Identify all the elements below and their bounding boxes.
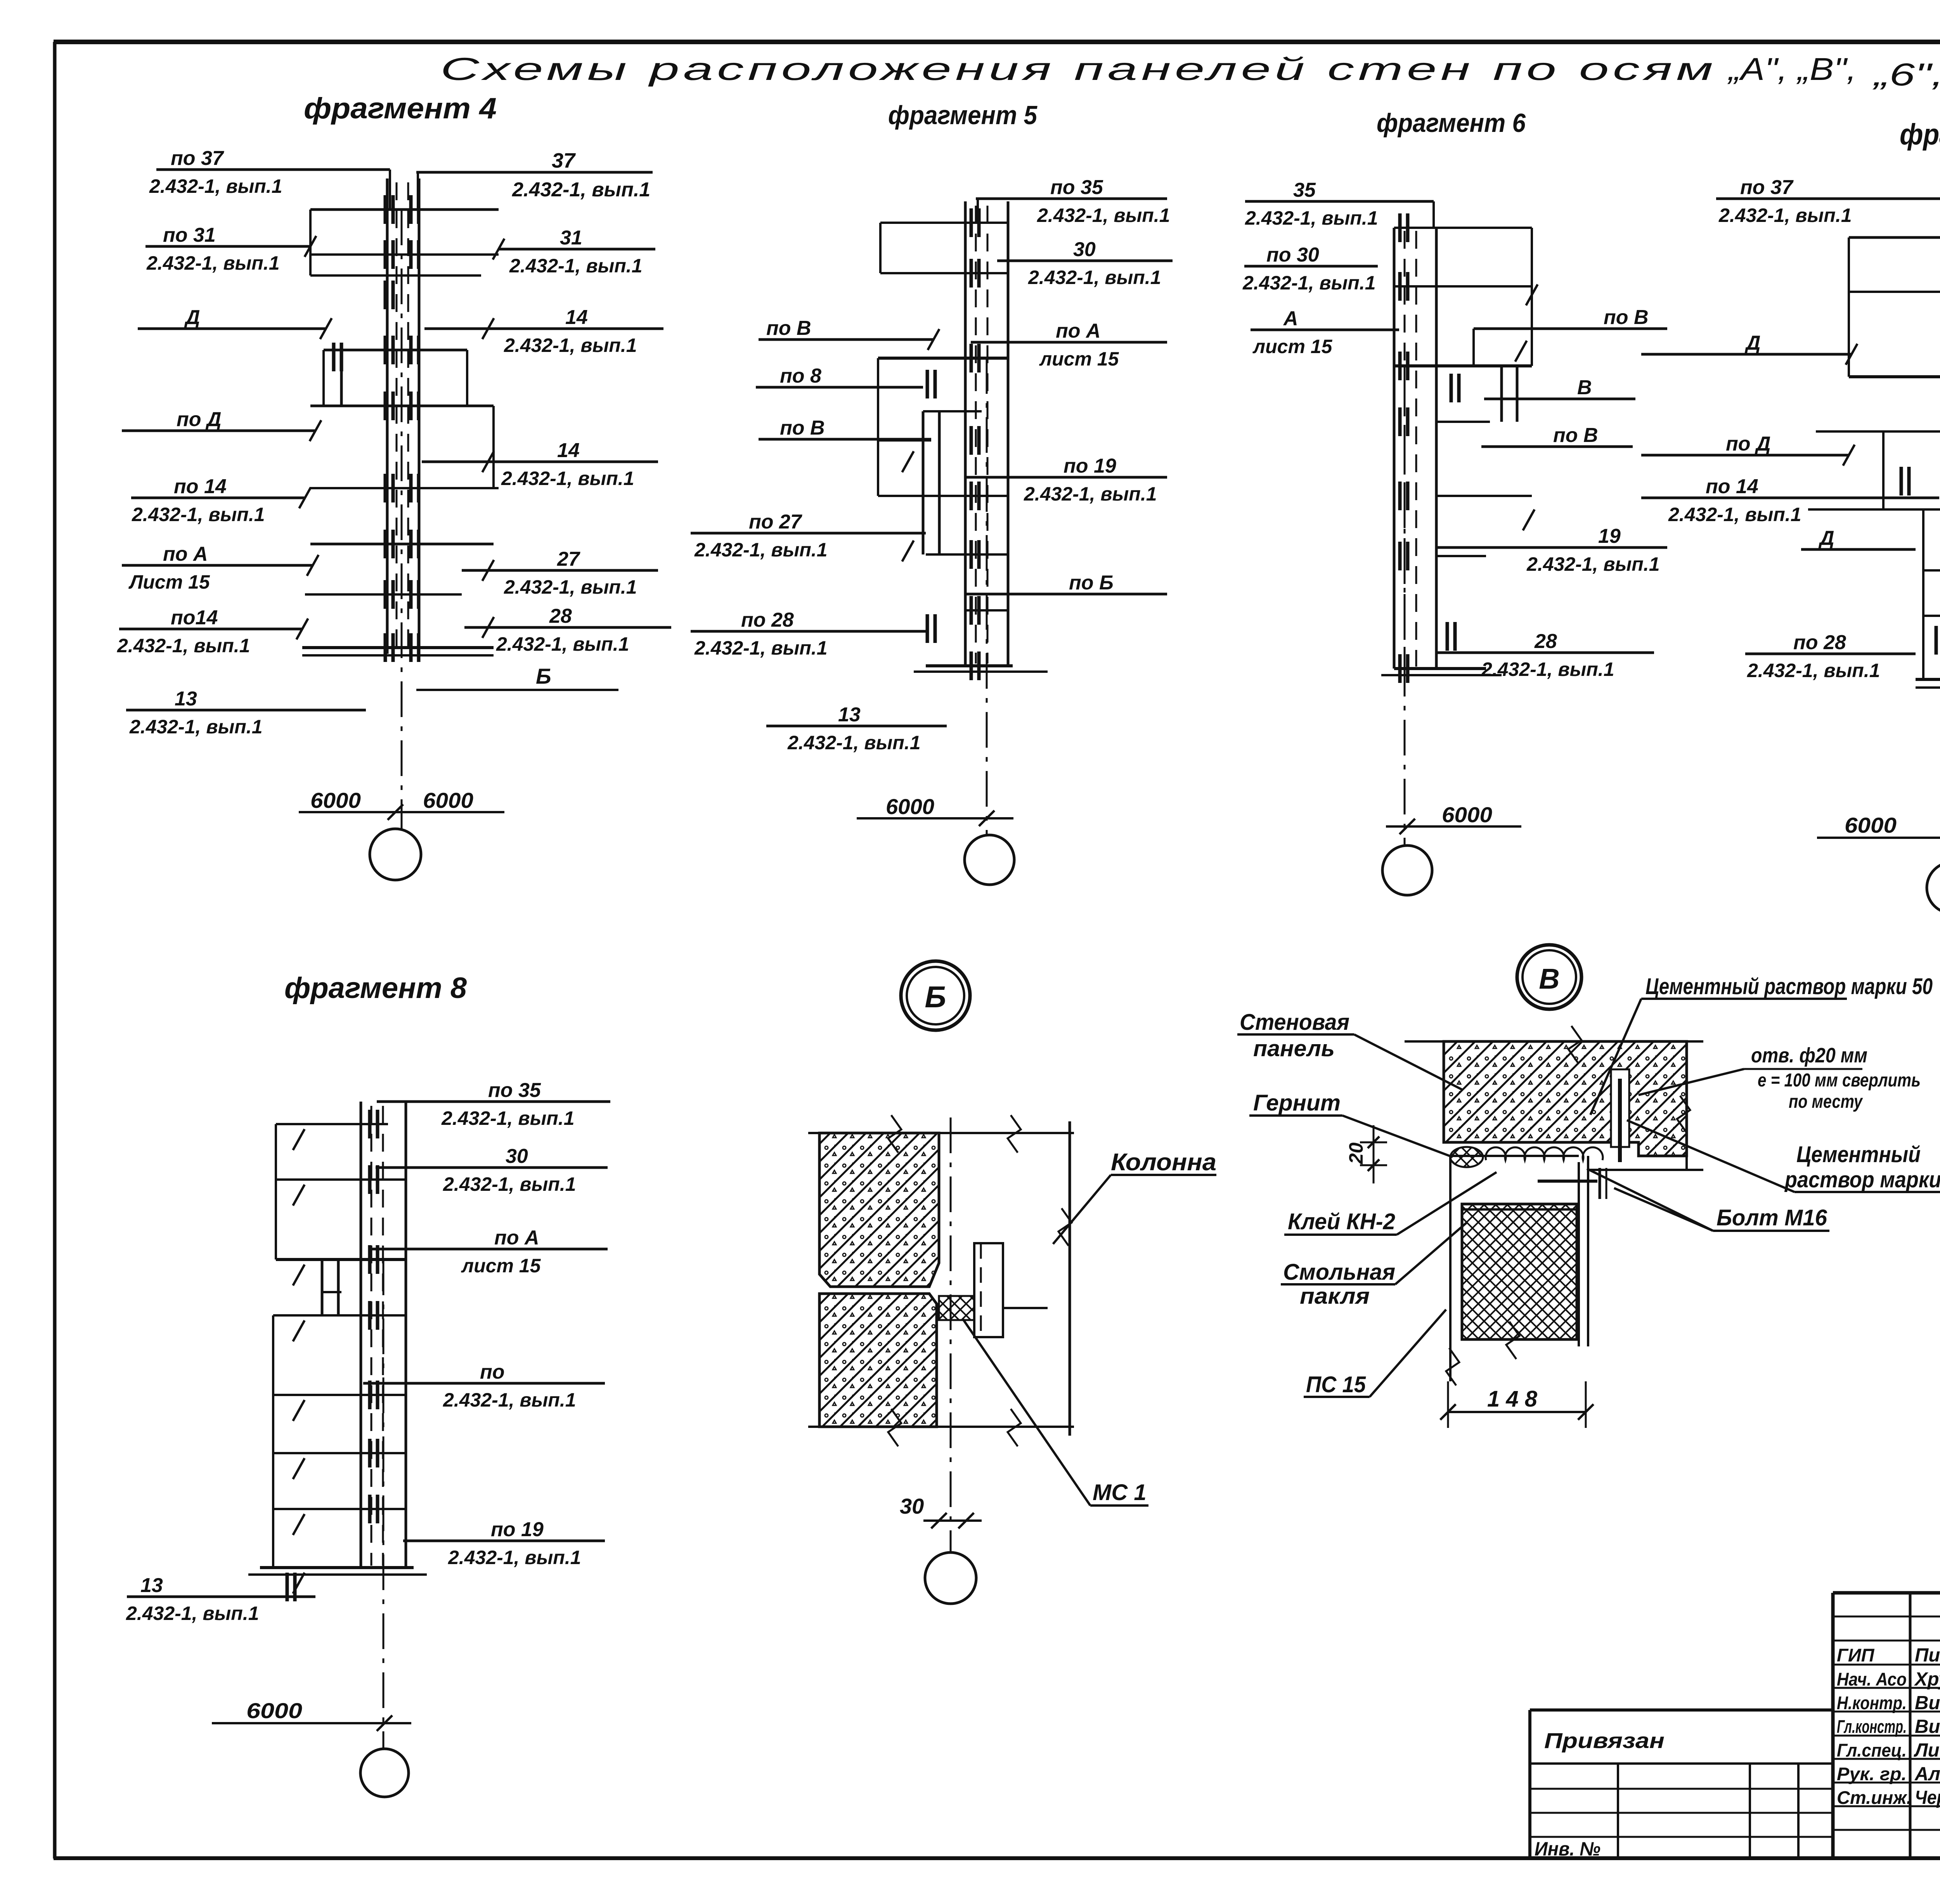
svg-text:фрагмент 7: фрагмент 7 [1900,118,1940,151]
svg-text:Лист 15: Лист 15 [128,571,210,593]
svg-text:по месту: по месту [1789,1091,1863,1112]
svg-text:20: 20 [1345,1142,1367,1164]
svg-text:19: 19 [1598,525,1621,547]
svg-text:2.432-1, вып.1: 2.432-1, вып.1 [129,716,263,738]
svg-text:28: 28 [1534,630,1557,653]
svg-text:28: 28 [549,605,572,627]
svg-text:Гернит: Гернит [1253,1090,1341,1116]
svg-text:2.432-1, вып.1: 2.432-1, вып.1 [1718,204,1852,226]
svg-text:2.432-1, вып.1: 2.432-1, вып.1 [149,175,282,197]
svg-text:37: 37 [552,149,576,172]
svg-text:Хрупало: Хрупало [1914,1669,1940,1690]
svg-text:фрагмент 5: фрагмент 5 [888,100,1038,130]
svg-text:по А: по А [1056,320,1101,342]
svg-text:Рук. гр.: Рук. гр. [1837,1764,1907,1784]
svg-text:2.432-1, вып.1: 2.432-1, вып.1 [126,1603,259,1624]
svg-text:панель: панель [1253,1036,1335,1061]
svg-text:2.432-1, вып.1: 2.432-1, вып.1 [1242,272,1376,294]
svg-text:„А", „В",: „А", „В", [1727,52,1857,87]
svg-text:е = 100 мм сверлить: е = 100 мм сверлить [1758,1070,1921,1091]
svg-text:6000: 6000 [246,1698,302,1723]
svg-text:2.432-1, вып.1: 2.432-1, вып.1 [496,633,629,655]
svg-text:2.432-1, вып.1: 2.432-1, вып.1 [441,1107,575,1129]
svg-text:по В: по В [766,317,811,340]
svg-text:2.432-1, вып.1: 2.432-1, вып.1 [1526,553,1660,575]
svg-text:по 28: по 28 [741,609,794,631]
svg-text:лист 15: лист 15 [461,1255,541,1277]
svg-text:пакля: пакля [1300,1284,1370,1309]
svg-text:6000: 6000 [423,788,473,813]
svg-text:2.432-1, вып.1: 2.432-1, вып.1 [787,732,921,754]
svg-text:по А: по А [163,543,208,565]
svg-text:6000: 6000 [886,794,934,819]
svg-text:2.432-1, вып.1: 2.432-1, вып.1 [1024,483,1157,505]
svg-text:фрагмент 6: фрагмент 6 [1377,108,1526,138]
svg-text:Привязан: Привязан [1544,1728,1665,1753]
svg-text:Инв. №: Инв. № [1535,1838,1600,1860]
svg-text:Болт М16: Болт М16 [1717,1205,1827,1230]
svg-text:2.432-1, вып.1: 2.432-1, вып.1 [448,1547,581,1568]
svg-text:30: 30 [900,1494,924,1518]
svg-text:Схемы расположения панелей: Схемы расположения панелей стен по осям [440,52,1717,87]
svg-text:13: 13 [140,1574,163,1597]
svg-text:Стеновая: Стеновая [1240,1010,1349,1035]
svg-text:Гл.спец.: Гл.спец. [1837,1740,1907,1760]
svg-text:Колонна: Колонна [1111,1149,1216,1176]
svg-text:2.432-1, вып.1: 2.432-1, вып.1 [443,1389,576,1411]
svg-text:отв. ф20 мм: отв. ф20 мм [1751,1044,1867,1067]
svg-text:Винклер: Винклер [1915,1693,1940,1713]
svg-text:2.432-1, вып.1: 2.432-1, вып.1 [501,468,634,489]
svg-text:2.432-1, вып.1: 2.432-1, вып.1 [1245,207,1378,229]
svg-text:2.432-1, вып.1: 2.432-1, вып.1 [1028,267,1161,288]
svg-text:Б: Б [536,664,551,688]
svg-text:по 14: по 14 [174,475,227,498]
svg-text:2.432-1, вып.1: 2.432-1, вып.1 [504,576,637,598]
svg-text:6000: 6000 [310,788,361,813]
svg-text:А: А [1283,307,1298,330]
svg-text:по: по [480,1361,505,1383]
svg-text:Клей КН-2: Клей КН-2 [1288,1209,1395,1234]
svg-text:2.432-1, вып.1: 2.432-1, вып.1 [443,1173,576,1195]
svg-text:Д: Д [1744,332,1761,354]
svg-text:14: 14 [565,306,588,329]
svg-text:ПС 15: ПС 15 [1306,1372,1366,1397]
svg-text:2.432-1, вып.1: 2.432-1, вып.1 [694,637,828,659]
svg-text:по В: по В [780,417,825,439]
svg-text:по Д: по Д [177,408,222,431]
svg-text:Цементный: Цементный [1796,1142,1921,1167]
svg-text:Алехова: Алехова [1914,1764,1940,1784]
svg-text:по Д: по Д [1726,433,1771,455]
svg-text:13: 13 [838,703,861,726]
svg-text:1 4 8: 1 4 8 [1487,1386,1538,1412]
svg-text:2.432-1, вып.1: 2.432-1, вып.1 [504,334,637,356]
svg-text:по 27: по 27 [749,511,802,533]
svg-text:31: 31 [560,227,582,249]
svg-text:по 37: по 37 [1740,176,1794,199]
svg-text:Д: Д [1818,527,1834,549]
svg-text:Нач. Асо: Нач. Асо [1837,1669,1907,1689]
svg-text:2.432-1, вып.1: 2.432-1, вып.1 [509,255,643,277]
svg-text:2.432-1, вып.1: 2.432-1, вып.1 [1668,504,1801,525]
svg-text:по 35: по 35 [1050,176,1103,199]
svg-text:по 37: по 37 [171,147,224,170]
svg-text:фрагмент 4: фрагмент 4 [304,92,497,125]
svg-text:Смольная: Смольная [1283,1260,1395,1285]
svg-text:МС 1: МС 1 [1093,1480,1147,1505]
svg-text:по А: по А [494,1227,539,1249]
svg-text:по Б: по Б [1069,572,1114,594]
svg-text:27: 27 [557,548,580,570]
svg-text:по 19: по 19 [1064,455,1116,477]
svg-text:Черкасова: Черкасова [1915,1787,1940,1808]
svg-text:2.432-1, вып.1: 2.432-1, вып.1 [694,539,828,561]
svg-text:ГИП: ГИП [1837,1645,1875,1665]
svg-text:Пивторак: Пивторак [1915,1645,1940,1666]
svg-text:Б: Б [925,980,946,1014]
svg-text:Винклер: Винклер [1915,1716,1940,1737]
svg-text:„6", „1": „6", „1" [1872,57,1940,92]
svg-text:по 8: по 8 [780,365,821,387]
svg-text:30: 30 [1073,238,1096,261]
svg-text:по 28: по 28 [1793,631,1846,654]
svg-text:по 19: по 19 [491,1518,544,1541]
svg-text:6000: 6000 [1845,813,1897,837]
svg-text:2.432-1, вып.1: 2.432-1, вып.1 [146,252,280,274]
svg-text:Цементный раствор марки 50: Цементный раствор марки 50 [1646,974,1933,999]
svg-text:лист 15: лист 15 [1252,336,1333,357]
svg-text:2.432-1, вып.1: 2.432-1, вып.1 [1481,658,1614,680]
svg-text:2.432-1, вып.1: 2.432-1, вып.1 [512,178,650,201]
svg-text:по 35: по 35 [488,1079,541,1102]
svg-text:В: В [1577,376,1592,399]
svg-text:по В: по В [1553,424,1598,447]
svg-text:Н.контр.: Н.контр. [1837,1693,1907,1713]
svg-text:35: 35 [1293,179,1316,201]
svg-text:по 31: по 31 [163,224,216,246]
svg-text:2.432-1, вып.1: 2.432-1, вып.1 [1747,660,1880,681]
svg-text:6000: 6000 [1442,802,1492,827]
svg-text:лист 15: лист 15 [1039,348,1119,370]
svg-text:по 14: по 14 [1706,475,1758,498]
svg-text:2.432-1, вып.1: 2.432-1, вып.1 [1037,204,1170,226]
svg-text:Д: Д [184,306,200,329]
svg-text:по 30: по 30 [1266,244,1319,266]
svg-text:фрагмент 8: фрагмент 8 [284,972,467,1005]
svg-text:раствор марки 100: раствор марки 100 [1784,1167,1940,1192]
svg-text:30: 30 [506,1145,528,1168]
svg-text:2.432-1, вып.1: 2.432-1, вып.1 [132,504,265,525]
svg-text:Лисичкин: Лисичкин [1914,1740,1940,1761]
svg-text:Ст.инж.: Ст.инж. [1837,1787,1912,1808]
svg-text:13: 13 [175,688,197,710]
svg-text:Гл.констр.: Гл.констр. [1837,1716,1907,1737]
svg-text:по14: по14 [171,606,218,629]
svg-text:В: В [1539,963,1559,995]
svg-text:по В: по В [1604,306,1649,329]
svg-text:14: 14 [557,439,580,462]
svg-text:2.432-1, вып.1: 2.432-1, вып.1 [117,635,250,657]
